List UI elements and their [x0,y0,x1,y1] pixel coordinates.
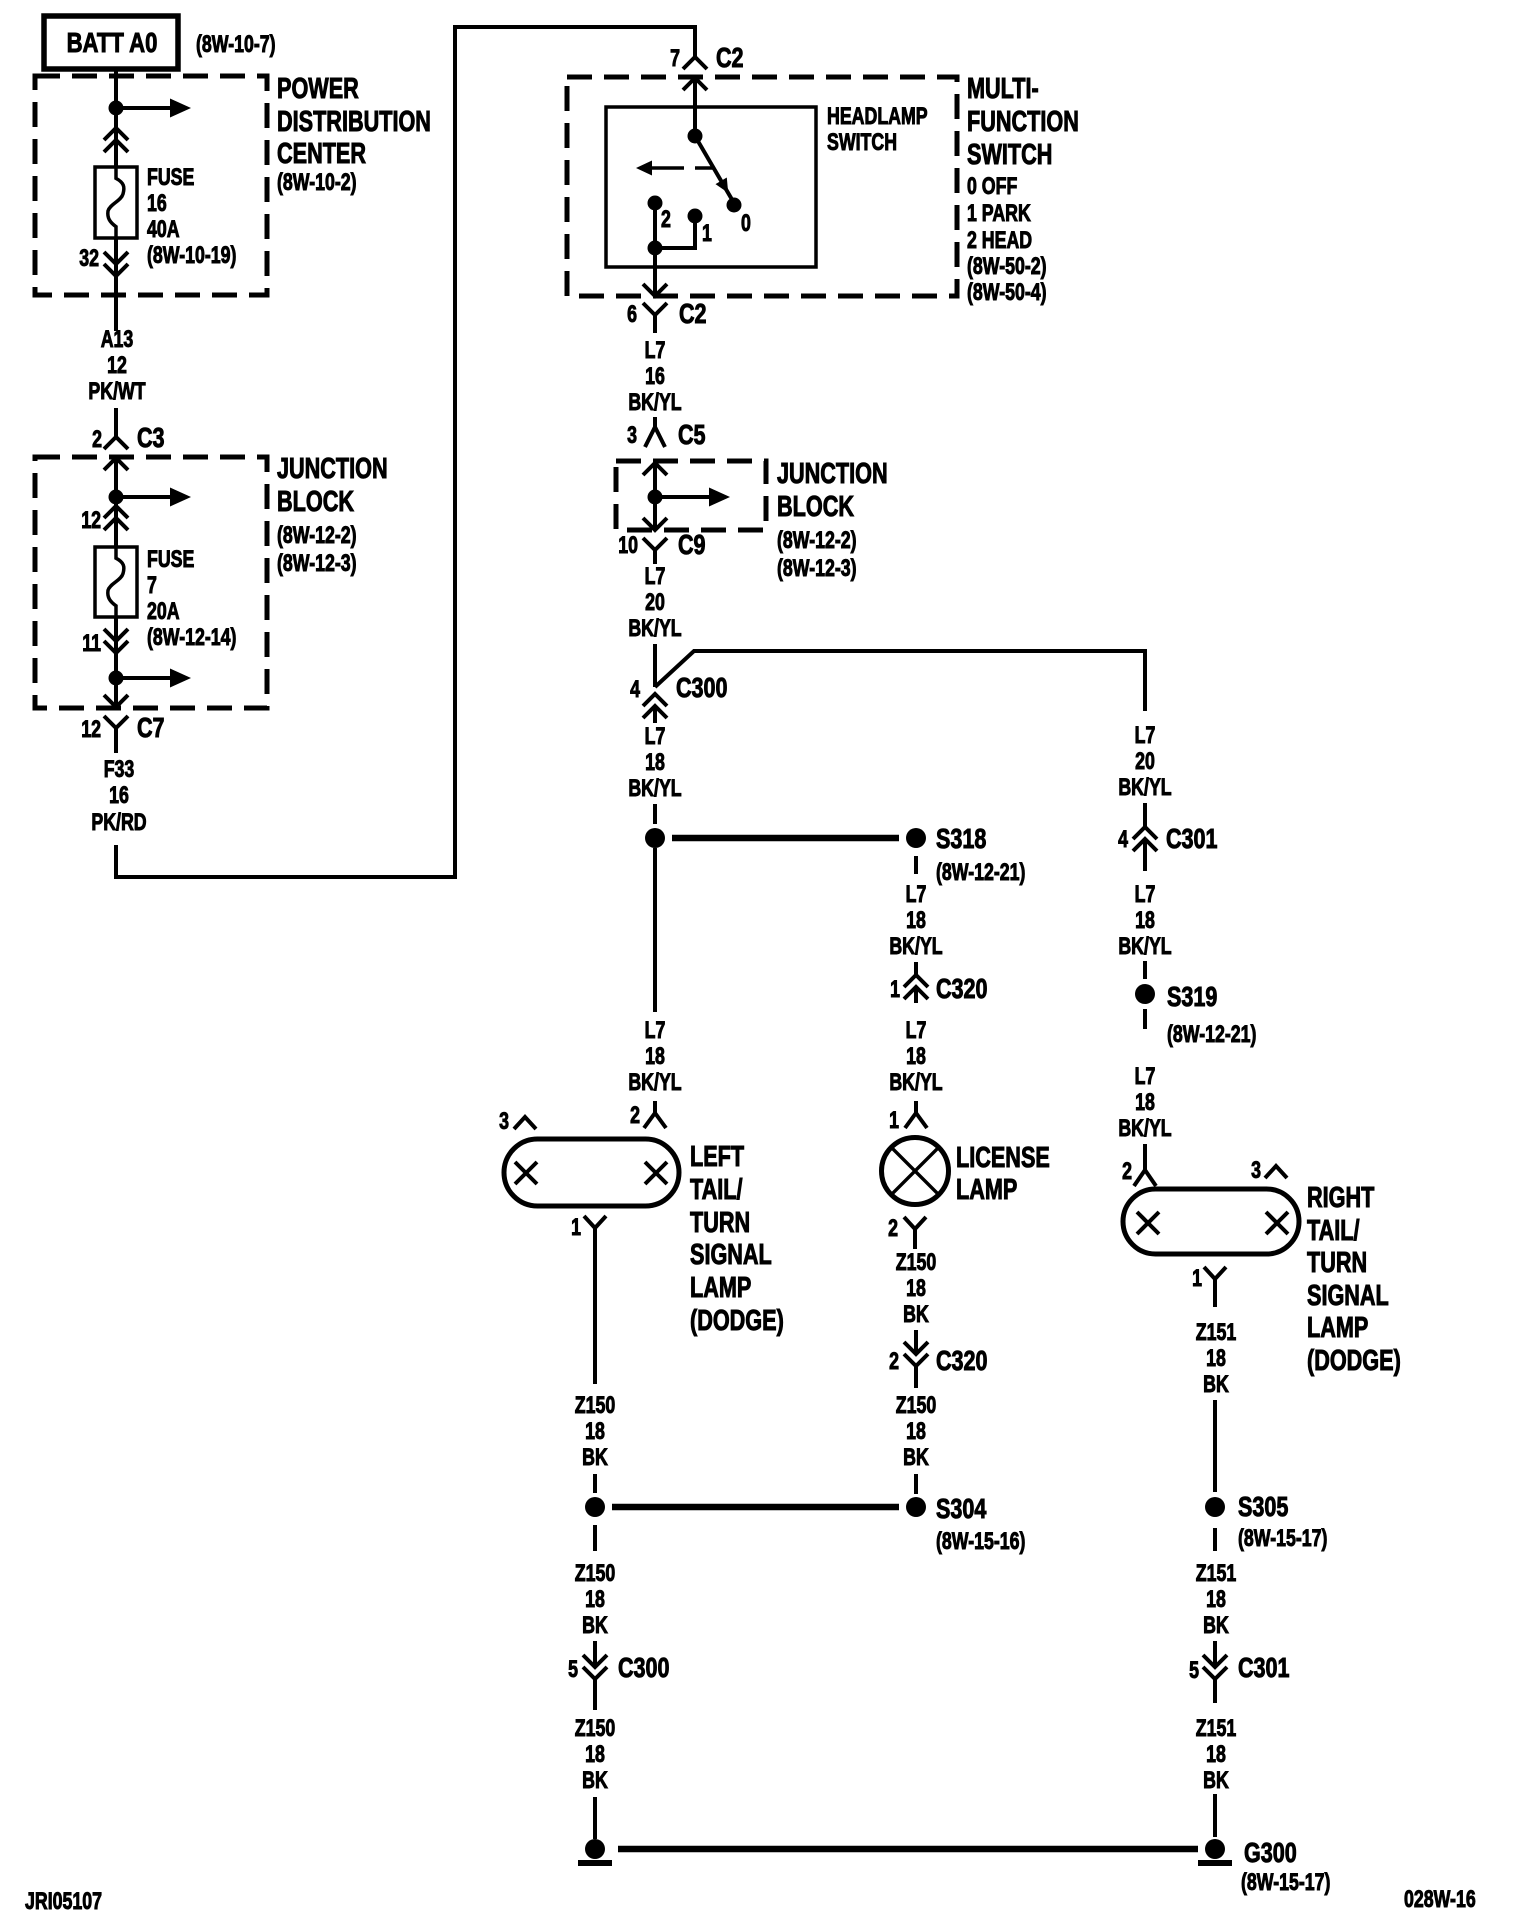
svg-text:S305: S305 [1238,1491,1288,1522]
right tail lamp pin 2 [1122,1144,1156,1186]
svg-text:TAIL/: TAIL/ [690,1174,743,1206]
svg-text:PK/WT: PK/WT [88,379,145,405]
wire left tail lamp to S304 [593,1228,597,1384]
svg-text:PK/RD: PK/RD [91,810,146,836]
feed arrow in junction block [116,488,191,507]
ground node G300 [1198,1837,1330,1895]
svg-text:11: 11 [82,631,101,657]
svg-text:1: 1 [889,1108,899,1134]
junction block [35,457,267,708]
svg-text:(8W-12-2): (8W-12-2) [277,523,357,549]
feed arrow in junction block 2 [655,488,730,507]
ground bus wire [618,1846,1198,1853]
headlamp switch label [827,104,928,156]
fuse 16 label [147,165,236,269]
wire label L7 18 BK/YL above right tail lamp [1118,1064,1171,1142]
svg-text:(DODGE): (DODGE) [690,1305,784,1337]
svg-text:(8W-12-3): (8W-12-3) [277,551,357,577]
svg-text:C3: C3 [137,422,165,453]
svg-text:12: 12 [81,508,101,534]
junction block label [277,453,388,576]
right tail lamp pin 3 [1251,1158,1287,1184]
connector C300 pin 4 [630,672,727,723]
svg-text:SWITCH: SWITCH [827,130,897,156]
svg-text:BK/YL: BK/YL [1118,934,1171,960]
svg-text:18: 18 [1135,1090,1155,1116]
svg-text:G300: G300 [1244,1837,1297,1868]
svg-text:(8W-12-21): (8W-12-21) [936,860,1025,886]
svg-text:C320: C320 [936,973,988,1004]
wire S319 to right tail lamp [1143,1009,1147,1029]
svg-text:C301: C301 [1166,823,1218,854]
fuse 7 label [147,547,236,651]
svg-text:BK: BK [1203,1768,1229,1794]
wire S305 to C301 pin 5 [1213,1528,1217,1551]
connector C9 pin 10 [618,497,705,564]
connector C2 pin 7 [670,42,743,73]
svg-text:3: 3 [1251,1158,1261,1184]
svg-text:18: 18 [645,1044,665,1070]
svg-text:HEADLAMP: HEADLAMP [827,104,928,130]
svg-text:TURN: TURN [1307,1247,1367,1279]
left tail lamp body [504,1139,679,1206]
svg-text:4: 4 [1118,827,1128,853]
inline connector chevrons above fuse 7 [104,497,128,547]
wire S304 to C300 pin 5 [593,1525,597,1551]
wire C9 to C300 [653,644,657,687]
svg-text:16: 16 [147,191,167,217]
wire into S304 left [593,1474,597,1493]
entry chevron into junction block [104,458,128,497]
junction node in junction block [109,490,124,505]
connector C320 pin 2 [889,1330,987,1388]
wire C7 to multi-function switch C2 [116,27,695,877]
svg-text:L7: L7 [645,338,666,364]
junction node in PDC [109,101,124,116]
right tail lamp body [1123,1189,1299,1254]
wire label Z151 18 BK above C301 [1196,1561,1237,1639]
svg-text:(8W-10-2): (8W-10-2) [277,170,357,196]
power source box BATT A0 [44,16,178,69]
svg-text:CENTER: CENTER [277,138,366,170]
left tail lamp pin 1 [571,1215,606,1241]
svg-text:JUNCTION: JUNCTION [277,453,388,485]
svg-text:C7: C7 [137,712,165,743]
wire branch to right tail lamp [655,651,1145,711]
junction node in junction block 2 [648,490,663,505]
svg-text:2: 2 [630,1103,640,1129]
svg-text:5: 5 [568,1657,578,1683]
junction block 2 [616,461,766,530]
svg-text:BK: BK [582,1768,608,1794]
svg-text:2: 2 [888,1216,898,1242]
svg-text:C2: C2 [716,42,744,73]
svg-text:SIGNAL: SIGNAL [1307,1280,1389,1312]
wire label Z150 18 BK above C300 [575,1561,615,1639]
svg-text:12: 12 [107,353,127,379]
switch contact 1 [688,209,713,247]
wire PDC to connector C3 [114,295,118,331]
svg-text:1: 1 [571,1215,581,1241]
svg-text:A13: A13 [101,327,134,353]
connector C320 pin 1 [890,962,987,1005]
svg-text:18: 18 [585,1742,605,1768]
switch motion arrow [636,161,713,176]
splice S304 [585,1493,1025,1554]
svg-text:0 OFF: 0 OFF [967,174,1017,200]
left tail lamp label [690,1141,784,1337]
svg-text:S304: S304 [936,1493,986,1524]
svg-text:(8W-12-14): (8W-12-14) [147,625,236,651]
svg-text:C300: C300 [618,1652,670,1683]
svg-text:4: 4 [630,677,640,703]
svg-text:3: 3 [627,423,637,449]
headlamp switch box [606,107,816,267]
svg-text:S319: S319 [1167,981,1217,1012]
svg-text:SWITCH: SWITCH [967,139,1052,171]
svg-text:L7: L7 [1135,1064,1156,1090]
left tail lamp pin 3 [499,1109,536,1135]
switch wiper with arrow [695,136,734,203]
svg-text:18: 18 [906,1419,926,1445]
svg-text:C320: C320 [936,1345,988,1376]
wire label Z150 18 BK above G300 [575,1716,615,1794]
svg-text:LAMP: LAMP [1307,1312,1368,1344]
wire label Z150 18 BK above S304 left [575,1393,615,1471]
junction node 2 in junction block [109,671,124,686]
svg-text:2: 2 [92,427,102,453]
inline connector chevrons pin 11 [104,617,128,678]
wire S318 to C320 [914,856,918,874]
license lamp pin 1 [889,1101,927,1134]
svg-text:LAMP: LAMP [956,1174,1017,1206]
license lamp bulb [882,1138,949,1205]
splice S319 [1135,981,1256,1047]
svg-text:32: 32 [79,246,99,272]
left tail lamp pin 2 [630,1101,666,1129]
svg-text:2: 2 [889,1349,899,1375]
inline connector chevrons above fuse 16 [104,108,128,167]
svg-text:18: 18 [585,1587,605,1613]
svg-text:(8W-10-7): (8W-10-7) [196,32,276,58]
svg-text:LAMP: LAMP [690,1272,751,1304]
switch contact 0 [727,198,751,237]
svg-text:16: 16 [109,783,129,809]
svg-text:Z150: Z150 [575,1393,615,1419]
wire label F33 16 PK/RD [91,757,146,836]
svg-text:(8W-10-19): (8W-10-19) [147,243,236,269]
connector C301 pin 5 [1189,1641,1289,1703]
svg-text:BATT A0: BATT A0 [67,28,158,59]
svg-text:(8W-12-3): (8W-12-3) [777,556,857,582]
connector C301 pin 4 [1118,803,1217,871]
connector C5 pin 3 [627,417,706,451]
svg-text:16: 16 [645,364,665,390]
svg-text:BK/YL: BK/YL [889,1070,942,1096]
svg-text:(8W-15-17): (8W-15-17) [1241,1870,1330,1896]
svg-text:Z150: Z150 [896,1250,936,1276]
wire into splice S319 [1143,961,1147,979]
wire label L7 20 BK/YL [628,564,681,642]
svg-text:Z151: Z151 [1196,1320,1237,1346]
power distribution center block [35,76,267,295]
svg-text:028W-16: 028W-16 [1404,1887,1476,1913]
wire into splice S318 [653,804,657,824]
svg-text:Z151: Z151 [1196,1561,1237,1587]
feed arrow in PDC [116,99,191,118]
svg-text:(8W-50-2): (8W-50-2) [967,254,1047,280]
wire label L7 18 BK/YL above S319 [1118,882,1171,960]
svg-text:18: 18 [1206,1587,1226,1613]
wire label A13 12 PK/WT [88,327,145,405]
svg-text:18: 18 [906,908,926,934]
svg-text:Z150: Z150 [575,1561,615,1587]
svg-text:(DODGE): (DODGE) [1307,1345,1401,1377]
feed arrow 2 in junction block [116,669,191,688]
multi-function switch label [967,73,1079,305]
wire label Z150 18 BK above S304 [896,1393,936,1471]
svg-text:1: 1 [1192,1266,1202,1292]
switch pivot node [688,129,703,144]
svg-text:BK/YL: BK/YL [889,934,942,960]
svg-text:Z150: Z150 [575,1716,615,1742]
svg-text:JRI05107: JRI05107 [25,1889,102,1915]
ground node left [578,1839,612,1863]
svg-text:18: 18 [906,1276,926,1302]
junction block 2 label [777,458,888,581]
svg-text:(8W-12-2): (8W-12-2) [777,528,857,554]
svg-text:Z151: Z151 [1196,1716,1237,1742]
svg-text:BK: BK [903,1302,929,1328]
svg-text:(8W-15-16): (8W-15-16) [936,1529,1025,1555]
svg-text:C5: C5 [678,419,706,450]
svg-text:(8W-12-21): (8W-12-21) [1167,1022,1256,1048]
connector C2 pin 6 [627,284,706,333]
wire right tail lamp to S305 [1213,1400,1217,1492]
fuse 16 40A [95,167,137,238]
svg-text:20: 20 [1135,749,1155,775]
svg-text:BK/YL: BK/YL [628,616,681,642]
power distribution center label [277,73,431,195]
svg-text:FUSE: FUSE [147,547,194,573]
svg-text:7: 7 [147,573,157,599]
svg-text:18: 18 [1206,1346,1226,1372]
svg-text:BK/YL: BK/YL [628,390,681,416]
wire label Z151 18 BK above G300 right [1196,1716,1237,1794]
svg-text:L7: L7 [906,882,927,908]
svg-text:18: 18 [585,1419,605,1445]
svg-text:L7: L7 [1135,882,1156,908]
svg-text:Z150: Z150 [896,1393,936,1419]
license lamp label [956,1142,1050,1206]
svg-text:BK/YL: BK/YL [628,1070,681,1096]
svg-text:L7: L7 [645,564,666,590]
svg-text:RIGHT: RIGHT [1307,1182,1375,1214]
connector C300 pin 5 [568,1641,669,1710]
svg-text:40A: 40A [147,217,180,243]
svg-text:C2: C2 [679,298,707,329]
connector C7 pin 12 [81,678,164,753]
svg-text:BK: BK [1203,1372,1229,1398]
svg-text:7: 7 [670,46,680,72]
svg-text:1: 1 [702,221,712,247]
svg-text:2: 2 [1122,1159,1132,1185]
svg-text:C301: C301 [1238,1652,1290,1683]
svg-text:BK/YL: BK/YL [1118,1116,1171,1142]
wire S318 to left tail lamp [653,848,657,1012]
svg-text:6: 6 [627,302,637,328]
svg-text:TURN: TURN [690,1207,750,1239]
splice S318 [645,823,1025,885]
svg-text:FUSE: FUSE [147,165,194,191]
wire label L7 18 BK/YL above S318 [628,724,681,802]
svg-text:18: 18 [1206,1742,1226,1768]
wire label L7 18 BK/YL above left tail lamp [628,1018,681,1096]
splice S305 [1205,1491,1327,1551]
svg-text:DISTRIBUTION: DISTRIBUTION [277,106,431,138]
svg-text:20: 20 [645,590,665,616]
svg-text:BK: BK [1203,1613,1229,1639]
wire label L7 18 BK/YL above license lamp [889,1018,942,1096]
svg-text:BLOCK: BLOCK [277,486,355,518]
svg-text:18: 18 [1135,908,1155,934]
svg-text:C300: C300 [676,672,728,703]
wire into headlamp switch [683,78,707,136]
wire to ground G300 left [593,1797,597,1839]
svg-text:BK: BK [582,1613,608,1639]
license lamp pin 2 [888,1216,926,1249]
switch internal wires to output [648,203,696,296]
svg-text:5: 5 [1189,1658,1199,1684]
right tail lamp label [1307,1182,1401,1377]
svg-text:L7: L7 [645,1018,666,1044]
svg-text:L7: L7 [1135,723,1156,749]
wire into splice S304 [914,1474,918,1494]
svg-text:18: 18 [906,1044,926,1070]
svg-text:2 HEAD: 2 HEAD [967,228,1032,254]
right tail lamp pin 1 [1192,1266,1226,1307]
svg-text:1 PARK: 1 PARK [967,201,1031,227]
wire label Z151 18 BK below right tail lamp [1196,1320,1237,1398]
fuse 7 20A [95,547,137,617]
inline connector chevrons pin 32 [104,238,128,298]
svg-text:2: 2 [661,207,671,233]
svg-text:C9: C9 [678,529,706,560]
svg-text:FUNCTION: FUNCTION [967,106,1079,138]
wire label L7 20 BK/YL right branch [1118,723,1171,801]
svg-text:(8W-15-17): (8W-15-17) [1238,1526,1327,1552]
svg-text:S318: S318 [936,823,986,854]
svg-text:JUNCTION: JUNCTION [777,458,888,490]
svg-text:BK: BK [582,1445,608,1471]
svg-text:BK/YL: BK/YL [628,776,681,802]
svg-text:BK: BK [903,1445,929,1471]
svg-text:18: 18 [645,750,665,776]
svg-text:SIGNAL: SIGNAL [690,1239,772,1271]
svg-text:1: 1 [890,977,900,1003]
svg-text:F33: F33 [104,757,135,783]
svg-text:LEFT: LEFT [690,1141,745,1173]
svg-text:LICENSE: LICENSE [956,1142,1050,1174]
svg-text:L7: L7 [645,724,666,750]
svg-text:TAIL/: TAIL/ [1307,1215,1360,1247]
wire label Z150 18 BK below license lamp [896,1250,936,1328]
wire label L7 18 BK/YL below S318 [889,882,942,960]
svg-text:3: 3 [499,1109,509,1135]
svg-text:10: 10 [618,533,638,559]
wire to ground G300 right [1213,1794,1217,1837]
switch contact 2 [648,196,671,233]
wire BATT A0 into PDC [114,69,118,108]
wire label L7 16 BK/YL [628,338,681,416]
svg-text:POWER: POWER [277,73,359,105]
svg-text:BK/YL: BK/YL [1118,775,1171,801]
svg-text:MULTI-: MULTI- [967,73,1039,105]
svg-text:12: 12 [81,717,101,743]
svg-text:BLOCK: BLOCK [777,491,855,523]
connector C3 pin 2 [92,408,164,454]
svg-text:(8W-50-4): (8W-50-4) [967,280,1047,306]
entry chevron into junction block 2 [643,463,667,497]
svg-text:L7: L7 [906,1018,927,1044]
svg-text:0: 0 [741,211,751,237]
svg-text:20A: 20A [147,599,180,625]
multi-function switch block [567,77,957,296]
